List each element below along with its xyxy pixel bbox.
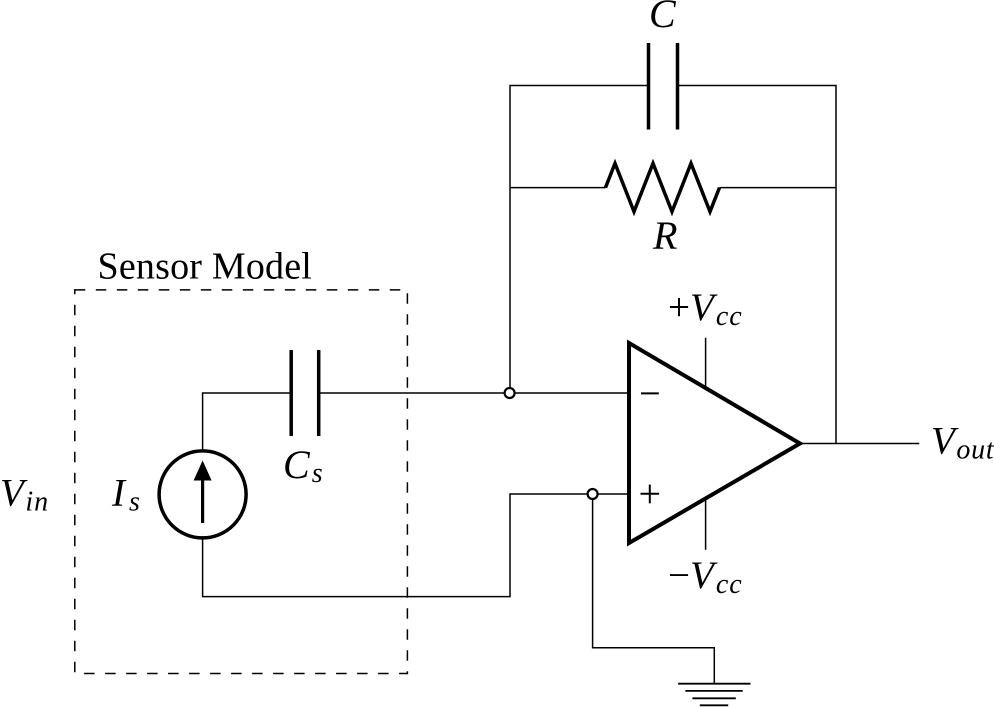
capacitor Cs [291, 350, 319, 436]
wire -Vcc stub [705, 498, 707, 550]
current source Is [159, 451, 246, 538]
capacitor C [649, 43, 678, 130]
op-amp minus pin mark [641, 392, 659, 394]
wire output [800, 443, 919, 445]
wire Cs to inverting node [319, 392, 629, 394]
wire resistor right [720, 187, 837, 189]
node inverting input [505, 388, 515, 398]
wire non-inverting node to ground [593, 500, 715, 684]
svg-text:Sensor Model: Sensor Model [98, 245, 313, 287]
ground [678, 684, 750, 706]
current source arrow [201, 478, 204, 523]
op-amp U1 [629, 343, 800, 543]
op-amp plus pin mark [641, 485, 660, 504]
wire feedback top left segment [510, 86, 649, 388]
resistor R [606, 163, 720, 211]
wire +Vcc stub [705, 338, 707, 388]
wire feedback top right segment [678, 86, 837, 444]
wire current source to Cs [203, 393, 292, 451]
sensor model dashed box [75, 290, 408, 674]
svg-text:R: R [652, 213, 677, 258]
svg-text:C: C [649, 0, 677, 36]
wire resistor left [510, 187, 606, 189]
node non-inverting input [588, 489, 598, 499]
wire sensor bottom to non-inverting node [203, 494, 629, 597]
